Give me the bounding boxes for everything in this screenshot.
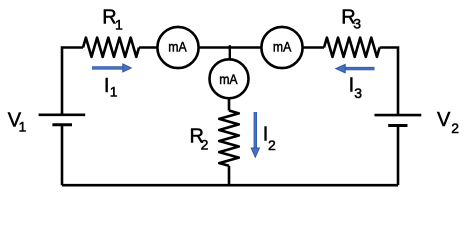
resistor R3 — [324, 38, 380, 57]
ammeter U1 — [157, 27, 198, 68]
ammeter U3 — [210, 59, 249, 98]
battery V1 plate long — [39, 114, 86, 117]
current arrow I3 — [336, 64, 375, 72]
current arrow I1 — [92, 64, 131, 72]
wire U3 to R2 — [228, 98, 231, 110]
svg-text:mA: mA — [219, 71, 238, 87]
ammeter U2 — [261, 27, 302, 68]
svg-text:3: 3 — [353, 15, 361, 31]
wire top-left segment — [62, 48, 83, 115]
svg-text:1: 1 — [115, 17, 123, 33]
svg-text:2: 2 — [451, 120, 459, 136]
svg-text:V: V — [437, 109, 451, 131]
svg-text:2: 2 — [268, 137, 276, 153]
wire U1 to U2 — [199, 46, 262, 49]
svg-text:3: 3 — [354, 85, 362, 101]
svg-text:mA: mA — [168, 39, 187, 55]
wire U2 to R3 — [303, 46, 324, 49]
battery V1 plate short — [52, 123, 72, 126]
current arrow I2 — [251, 112, 259, 157]
svg-text:2: 2 — [201, 136, 209, 152]
battery V2 plate long — [375, 114, 422, 117]
resistor R2 — [219, 111, 239, 166]
svg-text:1: 1 — [110, 84, 118, 100]
svg-text:mA: mA — [273, 39, 292, 55]
wire R1 to ammeter U1 — [139, 46, 158, 49]
svg-text:I: I — [104, 75, 110, 97]
wire top-right corner — [380, 48, 398, 115]
resistor R1 — [83, 38, 139, 57]
svg-text:1: 1 — [19, 119, 27, 135]
wire bottom rail — [62, 184, 398, 187]
wire V2 to bottom rail — [397, 126, 400, 186]
node junction tick — [229, 45, 231, 59]
wire V1 to bottom rail — [61, 125, 64, 186]
battery V2 plate short — [388, 124, 407, 127]
wire R2 to bottom rail — [228, 166, 231, 185]
